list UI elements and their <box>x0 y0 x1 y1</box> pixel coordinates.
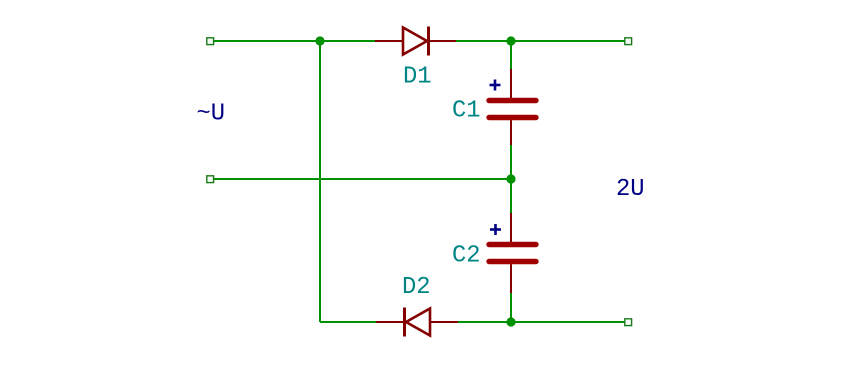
polarity mark + of C2 <box>490 224 501 235</box>
diode D1 <box>375 27 456 56</box>
label C1 <box>452 98 481 125</box>
svg-text:~U: ~U <box>197 101 226 128</box>
label D2 <box>402 274 431 301</box>
svg-text:D2: D2 <box>402 274 431 301</box>
wire: C2 bottom pin to bottom junction <box>510 292 512 323</box>
junction: center (middle wire and cap branch) <box>506 174 515 183</box>
terminal: bottom-right output <box>625 319 632 326</box>
wire: bottom junction to bottom-right output terminal <box>511 321 625 323</box>
wire: top junction down to C1 top pin <box>510 41 512 70</box>
wire: bottom-left corner to D2 cathode lead <box>320 321 377 323</box>
wire: left vertical bus (top junction down to bottom-left corner) <box>319 41 321 322</box>
wire: middle horizontal (input B to center junction) <box>213 178 512 180</box>
terminal: top-left input <box>207 38 214 45</box>
capacitor C2 <box>489 213 536 293</box>
label D1 <box>403 64 432 91</box>
svg-text:2U: 2U <box>616 176 645 203</box>
wire: center junction down to C2 top pin <box>510 179 512 214</box>
wire: C1 bottom pin to center junction <box>510 144 512 179</box>
wire: top-right junction to output terminal <box>511 40 625 42</box>
wire: junction to D1 anode <box>320 40 376 42</box>
polarity mark + of C1 <box>490 80 501 91</box>
label C2 <box>452 243 481 270</box>
junction: top-right (C1 top and top wire) <box>506 36 515 45</box>
junction: bottom (C2 bottom and bottom wire) <box>506 317 515 326</box>
svg-text:C2: C2 <box>452 243 481 270</box>
wire: D1 cathode to top-right junction <box>455 40 512 42</box>
terminal: middle-left input <box>207 176 214 183</box>
diode D2 <box>376 308 458 337</box>
svg-text:D1: D1 <box>403 64 432 91</box>
net label ~U (AC input) <box>197 101 226 128</box>
junction: top-left (vertical bus and top wire) <box>315 36 324 45</box>
wire: top-left horizontal segment (input A to junction) <box>213 40 321 42</box>
wire: D2 anode to bottom junction <box>457 321 512 323</box>
terminal: top-right output <box>625 38 632 45</box>
capacitor C1 <box>489 69 536 145</box>
svg-text:C1: C1 <box>452 98 481 125</box>
net label 2U (output voltage) <box>616 176 645 203</box>
